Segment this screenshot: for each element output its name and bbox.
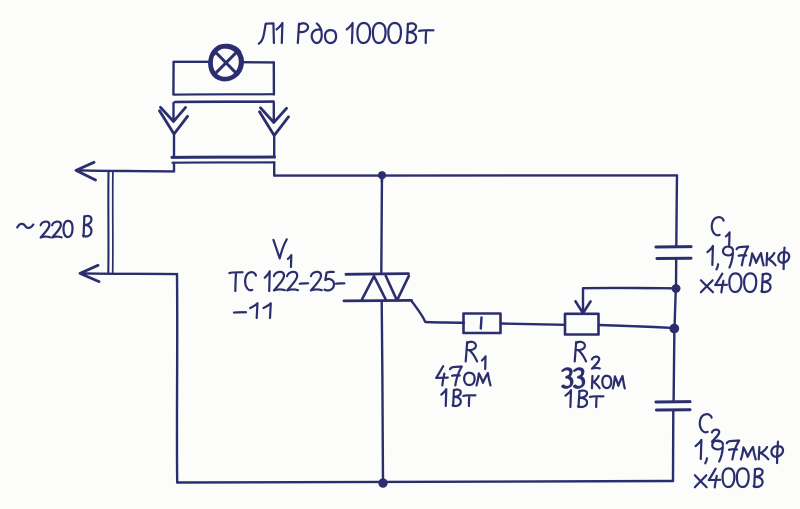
capacitor C1 plates: [656, 245, 691, 248]
plug pin left arrowhead: [161, 107, 186, 121]
label V1 subscript: [288, 255, 291, 267]
triac V1 triangle down: [386, 276, 409, 300]
plug lower stub left: [173, 163, 175, 172]
wire bottom horizontal: [177, 481, 673, 483]
node B junction: [670, 324, 679, 333]
potentiometer R2 wiper arrow: [582, 289, 584, 312]
lamp Л1 cross: [215, 51, 238, 74]
plug socket right fork: [260, 112, 289, 136]
wire C2 to bottom: [672, 410, 675, 481]
label х 400 В C2: [695, 468, 763, 487]
label Л1 Рдо 1000 Вт: [259, 23, 434, 44]
plug socket left fork: [160, 111, 188, 134]
wire lamp line left: [174, 61, 210, 63]
plug lower bar double line: [172, 156, 275, 159]
wire bottom-left mains: [81, 272, 177, 275]
label 33 ком: [562, 368, 625, 388]
label 1,97 мкф C1: [707, 246, 789, 269]
plug socket right stem: [273, 136, 275, 158]
label R2: [575, 342, 586, 362]
label C2: [700, 414, 712, 432]
label 47 ом: [436, 366, 490, 385]
resistor R1 body: [464, 314, 501, 334]
plug lower stub right: [273, 162, 275, 175]
label C1 subscript: [726, 232, 730, 245]
wire node B to C2: [672, 329, 675, 402]
node A junction: [672, 285, 680, 293]
arrow left bottom: [80, 265, 99, 281]
label -11: [234, 303, 271, 318]
label 1 Вт R2: [565, 390, 603, 407]
wire top-left mains to plug: [77, 170, 174, 171]
potentiometer R2 body: [565, 314, 599, 335]
node junction top: [378, 172, 385, 179]
wire left vertical down: [176, 274, 179, 482]
label V1: [273, 239, 286, 258]
label 1 Вт R1: [441, 389, 475, 406]
triac V1 gate wire: [412, 301, 465, 323]
label R2 subscript: [592, 357, 600, 369]
plug upper bar double line: [175, 93, 274, 96]
label х 400 В C1: [701, 273, 771, 292]
label R1 subscript: [482, 356, 486, 369]
capacitor C2 plates: [656, 400, 690, 403]
wire R2 wiper to node A: [583, 287, 676, 290]
plug socket left stem: [173, 134, 175, 157]
plug pin right arrowhead: [261, 108, 287, 123]
triac V1 top bar: [346, 272, 409, 275]
triac V1 vertical top: [380, 175, 383, 273]
label R1: [466, 342, 477, 362]
label ТС 122-25-: [229, 271, 344, 291]
plug pin left shaft: [172, 103, 174, 120]
lamp loop left vertical: [172, 62, 175, 95]
resistor R1 tick: [480, 318, 483, 329]
node junction bottom: [379, 479, 387, 487]
wire node A to node B: [675, 289, 676, 329]
wire right vertical to C1: [675, 175, 678, 246]
wire top horizontal right: [274, 174, 677, 177]
wire lamp line right: [243, 61, 274, 64]
lamp loop right vertical: [273, 63, 276, 95]
wire left feeder double line: [107, 172, 109, 273]
label C1: [712, 217, 724, 235]
lamp Л1 circle: [210, 46, 242, 80]
plug pin right shaft: [273, 103, 275, 121]
arrow left top: [76, 162, 96, 180]
triac V1 triangle up: [362, 276, 387, 300]
triac V1 bottom bar: [344, 299, 412, 302]
triac V1 vertical bottom: [382, 301, 383, 483]
label C2 subscript: [712, 430, 720, 442]
wire R1 to R2: [501, 324, 566, 325]
wire R2 to node B: [599, 325, 673, 328]
wire C1 to node A: [675, 259, 678, 289]
label ~220 В: [17, 216, 91, 238]
label 1,97 мкф C2: [696, 440, 783, 463]
